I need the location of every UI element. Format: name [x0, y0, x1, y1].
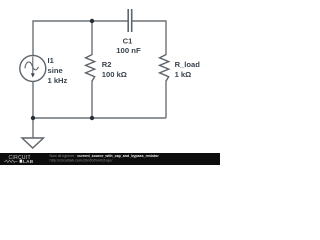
ground: [22, 138, 44, 148]
wire R2 top branch: [91, 21, 93, 55]
svg-text:Now all nginner : current_sour: Now all nginner : current_source_with_ca…: [50, 154, 160, 158]
footer logo resistor zigzag: [4, 160, 18, 162]
wire R2 bottom branch: [91, 81, 93, 119]
footer logo chip: [20, 160, 23, 163]
footer bar: [0, 153, 220, 165]
wire top-left segment: [33, 21, 128, 56]
wire R_load bottom branch: [165, 81, 167, 119]
resistor R2: [86, 55, 95, 81]
svg-text:1 kHz: 1 kHz: [48, 76, 68, 85]
resistor R_load: [160, 55, 169, 81]
wire top-right segment: [132, 21, 167, 55]
wire source bottom to ground node: [32, 81, 34, 118]
I1 arrowhead: [31, 73, 35, 77]
svg-text:C1: C1: [123, 36, 133, 45]
svg-text:I1: I1: [48, 56, 55, 65]
wire bottom bus: [33, 117, 166, 119]
svg-text:http://circuitlab.com/c9n6bfmm: http://circuitlab.com/c9n6bfmmh2vqe/: [50, 158, 114, 162]
junction node top (R2/C1 net): [90, 19, 94, 23]
svg-text:LAB: LAB: [23, 159, 34, 164]
current source I1: [20, 55, 46, 81]
junction node bottom R2: [90, 116, 94, 120]
svg-text:R2: R2: [102, 60, 112, 69]
svg-text:R_load: R_load: [175, 60, 201, 69]
svg-text:1 kΩ: 1 kΩ: [175, 70, 192, 79]
svg-text:100 kΩ: 100 kΩ: [102, 70, 127, 79]
svg-text:sine: sine: [48, 66, 63, 75]
capacitor C1: [128, 9, 132, 32]
junction node ground-left: [31, 116, 35, 120]
wire ground stub: [32, 118, 34, 138]
svg-text:100 nF: 100 nF: [116, 46, 141, 55]
